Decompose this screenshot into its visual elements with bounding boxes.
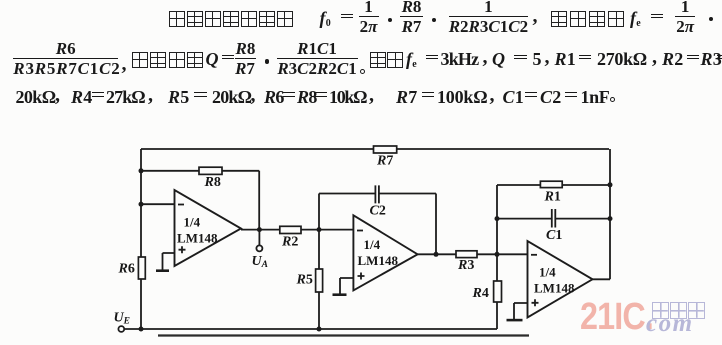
svg-text:LM148: LM148 [358, 253, 399, 268]
svg-text:1/4: 1/4 [539, 265, 556, 280]
svg-text:UE: UE [114, 311, 130, 327]
svg-text:R1: R1 [544, 190, 561, 205]
svg-text:LM148: LM148 [534, 281, 575, 296]
svg-text:R8: R8 [204, 175, 221, 190]
svg-text:1/4: 1/4 [364, 237, 381, 252]
svg-text:UA: UA [252, 254, 268, 270]
svg-text:R6: R6 [118, 262, 135, 277]
svg-text:R4: R4 [472, 286, 489, 301]
svg-text:C1: C1 [546, 228, 562, 243]
svg-text:R2: R2 [281, 235, 298, 250]
svg-text:1/4: 1/4 [184, 215, 201, 230]
svg-text:R5: R5 [296, 273, 313, 288]
svg-text:LM148: LM148 [177, 231, 218, 246]
svg-text:R3: R3 [457, 258, 474, 273]
svg-text:R7: R7 [376, 154, 393, 169]
svg-text:C2: C2 [370, 204, 386, 219]
